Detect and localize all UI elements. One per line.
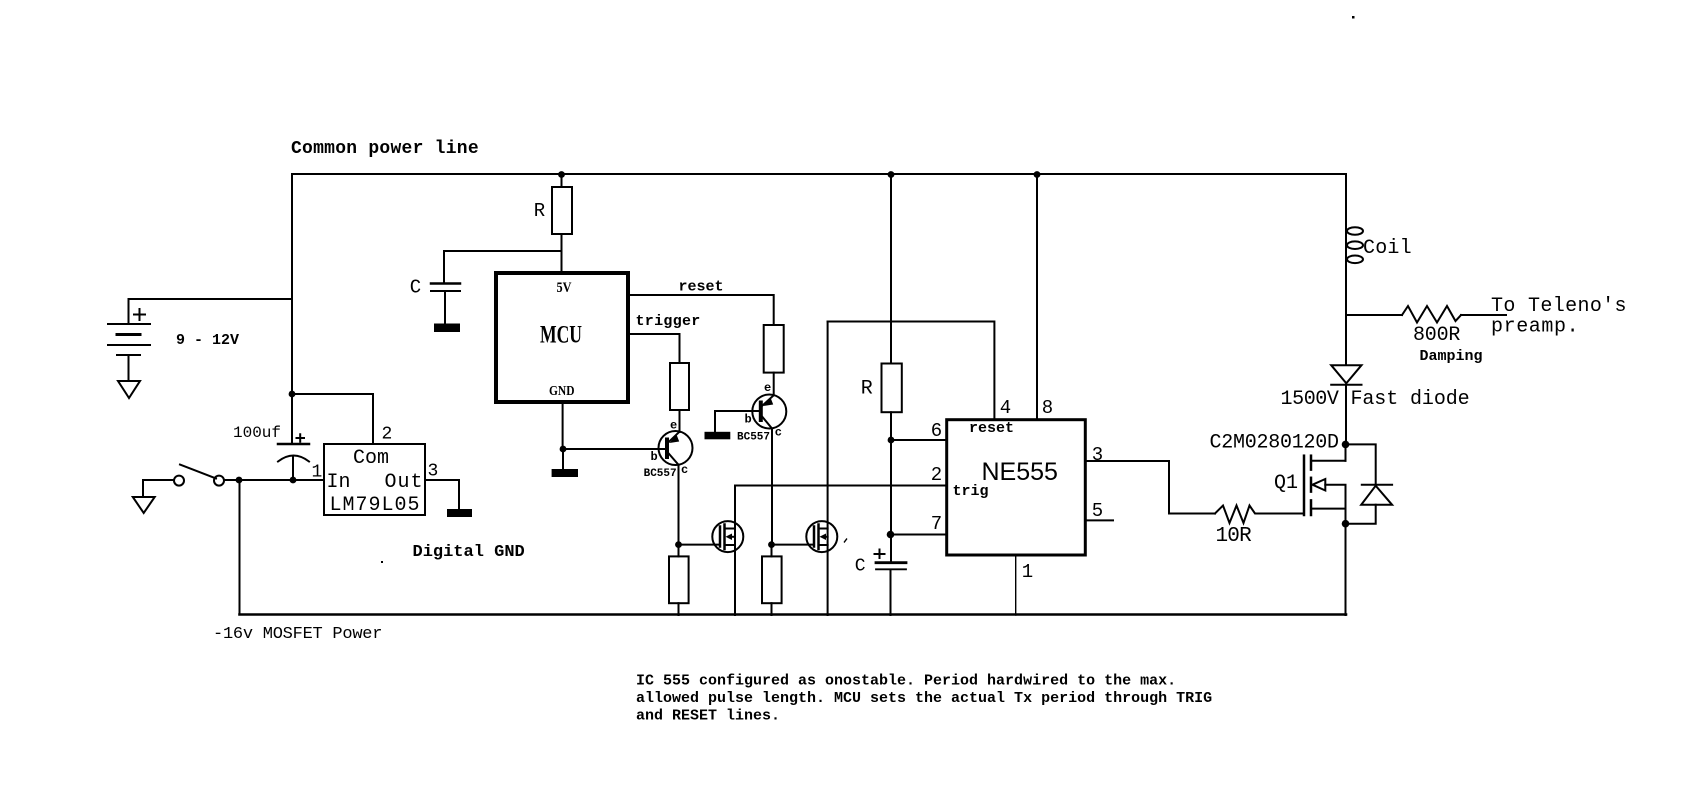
svg-text:BC557: BC557 bbox=[737, 431, 770, 443]
svg-text:5: 5 bbox=[1092, 500, 1103, 522]
svg-text:b: b bbox=[651, 450, 658, 464]
svg-text:Damping: Damping bbox=[1420, 348, 1483, 365]
svg-text:c: c bbox=[775, 426, 782, 440]
svg-text:1: 1 bbox=[312, 463, 323, 483]
svg-text:4: 4 bbox=[1000, 397, 1011, 419]
svg-text:Digital GND: Digital GND bbox=[413, 543, 525, 562]
svg-text:and RESET lines.: and RESET lines. bbox=[636, 708, 780, 725]
svg-text:trig: trig bbox=[953, 483, 989, 500]
svg-text:c: c bbox=[681, 463, 688, 477]
svg-text:1: 1 bbox=[1022, 561, 1033, 583]
svg-text:preamp.: preamp. bbox=[1491, 316, 1579, 339]
svg-text:5V: 5V bbox=[557, 280, 572, 296]
svg-text:10R: 10R bbox=[1216, 525, 1253, 548]
svg-text:C2M0280120D: C2M0280120D bbox=[1210, 432, 1339, 455]
svg-text:R: R bbox=[534, 200, 545, 222]
svg-text:NE555: NE555 bbox=[982, 458, 1058, 486]
svg-text:Common power line: Common power line bbox=[291, 139, 479, 159]
svg-text:800R: 800R bbox=[1413, 324, 1460, 347]
svg-text:6: 6 bbox=[931, 420, 942, 442]
svg-text:In: In bbox=[327, 471, 351, 494]
svg-text:GND: GND bbox=[549, 384, 575, 399]
svg-text:LM79L05: LM79L05 bbox=[330, 494, 421, 517]
svg-text:BC557: BC557 bbox=[644, 468, 677, 480]
svg-text:C: C bbox=[855, 557, 866, 577]
svg-text:3: 3 bbox=[428, 462, 439, 482]
svg-text:e: e bbox=[764, 381, 771, 395]
svg-text:8: 8 bbox=[1042, 397, 1053, 419]
svg-text:trigger: trigger bbox=[636, 313, 701, 330]
svg-text:-16v MOSFET Power: -16v MOSFET Power bbox=[213, 625, 382, 644]
svg-text:C: C bbox=[410, 277, 421, 299]
svg-text:Out: Out bbox=[385, 471, 424, 494]
svg-text:2: 2 bbox=[931, 464, 942, 486]
svg-text:2: 2 bbox=[382, 425, 393, 445]
svg-text:Q1: Q1 bbox=[1274, 472, 1298, 495]
svg-text:1500V: 1500V bbox=[1281, 388, 1339, 411]
svg-text:Coil: Coil bbox=[1363, 237, 1412, 260]
svg-text:reset: reset bbox=[679, 279, 724, 296]
svg-text:Com: Com bbox=[353, 447, 389, 470]
svg-text:3: 3 bbox=[1092, 444, 1103, 466]
svg-text:allowed pulse length. MCU sets: allowed pulse length. MCU sets the actua… bbox=[636, 690, 1212, 707]
svg-text:100uf: 100uf bbox=[233, 424, 281, 442]
svg-text:9 - 12V: 9 - 12V bbox=[176, 332, 239, 349]
svg-text:7: 7 bbox=[931, 513, 942, 535]
svg-text:e: e bbox=[670, 418, 677, 432]
svg-text:MCU: MCU bbox=[540, 322, 582, 349]
svg-text:R: R bbox=[861, 378, 873, 401]
svg-text:b: b bbox=[745, 412, 752, 426]
svg-text:reset: reset bbox=[969, 420, 1014, 437]
svg-text:Fast diode: Fast diode bbox=[1351, 388, 1470, 411]
svg-text:IC 555 configured as onostable: IC 555 configured as onostable. Period h… bbox=[636, 673, 1176, 690]
